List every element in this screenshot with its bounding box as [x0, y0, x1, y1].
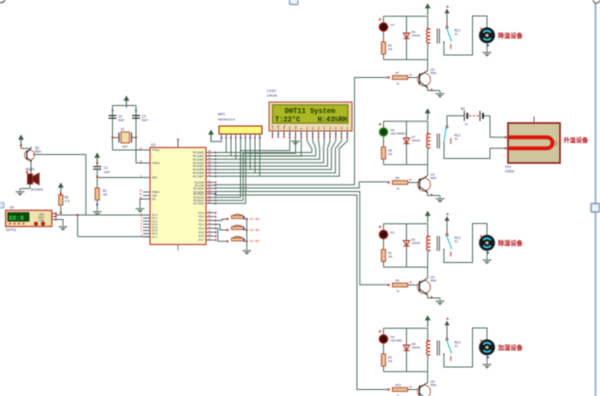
svg-text:X3: X3 [391, 23, 395, 27]
svg-text:D8: D8 [412, 342, 416, 346]
svg-text:VEE: VEE [284, 125, 286, 130]
svg-text:P0.7/AD7: P0.7/AD7 [193, 174, 205, 178]
svg-text:P0.5/AD5: P0.5/AD5 [193, 168, 205, 172]
svg-text:10k: 10k [388, 152, 393, 156]
svg-text:RL3: RL3 [455, 236, 461, 240]
svg-text:R10: R10 [396, 383, 402, 387]
svg-text:SET: SET [255, 218, 260, 221]
svg-text:T:22°C: T:22°C [275, 115, 300, 124]
svg-text:P3.4: P3.4 [199, 226, 205, 230]
svg-text:升温设备: 升温设备 [564, 137, 590, 145]
svg-text:D5: D5 [412, 30, 416, 34]
svg-text:P2.7/A15: P2.7/A15 [193, 202, 204, 206]
svg-text:1N4148: 1N4148 [412, 242, 421, 245]
svg-text:RL1: RL1 [455, 29, 461, 33]
svg-text:ALE: ALE [152, 194, 157, 198]
svg-text:DHT11: DHT11 [6, 228, 17, 232]
svg-text:加湿设备: 加湿设备 [497, 344, 524, 352]
svg-text:R1: R1 [388, 251, 392, 255]
svg-text:P2.4/A12: P2.4/A12 [193, 192, 204, 196]
svg-text:RST: RST [152, 176, 158, 180]
svg-text:XTAL1: XTAL1 [152, 148, 160, 152]
svg-text:RL2: RL2 [455, 134, 461, 138]
svg-text:LCD1: LCD1 [267, 89, 276, 93]
svg-text:D2: D2 [412, 238, 416, 242]
svg-text:8550: 8550 [35, 150, 42, 154]
svg-text:除湿设备: 除湿设备 [498, 240, 524, 248]
svg-text:Q2: Q2 [431, 68, 435, 72]
svg-text:GND: GND [39, 220, 44, 222]
svg-text:R8: R8 [388, 149, 392, 153]
svg-text:RL4: RL4 [455, 341, 461, 345]
svg-text:P3.3: P3.3 [199, 223, 205, 227]
svg-text:Q5: Q5 [431, 380, 435, 384]
svg-text:P0.4/AD4: P0.4/AD4 [193, 164, 205, 168]
svg-text:Q3: Q3 [431, 173, 435, 177]
svg-text:OV1: OV1 [505, 165, 512, 169]
svg-text:VDD: VDD [39, 214, 44, 216]
svg-text:D6: D6 [391, 128, 395, 132]
svg-text:EA: EA [152, 197, 156, 201]
svg-text:R9: R9 [396, 176, 400, 180]
svg-text:VSS: VSS [272, 125, 274, 130]
svg-text:P3.5: P3.5 [199, 230, 205, 234]
svg-text:SET: SET [255, 240, 260, 243]
svg-text:30pF: 30pF [142, 118, 149, 122]
svg-text:B1: B1 [461, 107, 465, 111]
svg-text:LM016L: LM016L [267, 94, 278, 98]
svg-text:R3: R3 [396, 279, 400, 283]
svg-text:8050: 8050 [431, 71, 437, 75]
svg-text:P3.2: P3.2 [199, 219, 205, 223]
svg-text:RESPACK-8: RESPACK-8 [218, 117, 235, 121]
svg-text:1k: 1k [397, 289, 400, 293]
svg-text:10k: 10k [388, 359, 393, 363]
svg-text:P0.2/AD2: P0.2/AD2 [193, 157, 205, 161]
svg-text:降温设备: 降温设备 [498, 32, 524, 40]
svg-text:88:8: 88:8 [9, 215, 25, 222]
svg-text:30pF: 30pF [118, 118, 125, 122]
svg-text:1A: 1A [465, 122, 468, 126]
svg-text:1N4148: 1N4148 [412, 35, 421, 38]
svg-text:U1: U1 [151, 143, 156, 147]
svg-text:1N4148: 1N4148 [412, 347, 421, 350]
svg-text:R5: R5 [388, 356, 392, 360]
svg-text:5V: 5V [455, 137, 458, 141]
svg-text:P0.1/AD1: P0.1/AD1 [193, 154, 205, 158]
svg-text:P3.7: P3.7 [199, 238, 205, 242]
svg-text:8050: 8050 [431, 383, 437, 387]
svg-text:1N4148: 1N4148 [412, 140, 421, 143]
svg-text:10k: 10k [388, 255, 393, 259]
svg-text:SET: SET [255, 229, 260, 232]
svg-text:K2: K2 [250, 228, 254, 232]
svg-text:10uF: 10uF [104, 170, 111, 174]
svg-text:RS: RS [290, 126, 292, 130]
svg-text:1k: 1k [397, 187, 400, 191]
svg-text:Q4: Q4 [431, 275, 435, 279]
svg-text:5V: 5V [455, 240, 458, 244]
svg-text:K1: K1 [250, 217, 254, 221]
svg-text:BUZ1: BUZ1 [26, 168, 35, 172]
svg-text:U2: U2 [10, 206, 14, 210]
svg-text:VDD: VDD [278, 124, 280, 129]
svg-text:10k: 10k [388, 47, 393, 51]
svg-text:LED-GREEN: LED-GREEN [391, 132, 406, 136]
svg-text:P3.0: P3.0 [199, 211, 205, 215]
svg-text:8050: 8050 [431, 176, 437, 180]
svg-text:P0.0/AD0: P0.0/AD0 [193, 151, 205, 155]
svg-text:BUZZER: BUZZER [31, 188, 44, 192]
svg-text:P1.7: P1.7 [152, 235, 158, 239]
svg-text:K3: K3 [250, 239, 254, 243]
svg-text:100: 100 [554, 140, 558, 146]
svg-text:10k: 10k [103, 193, 108, 197]
svg-text:XTAL2: XTAL2 [152, 161, 160, 165]
svg-text:H:43%RH: H:43%RH [318, 116, 347, 124]
svg-text:OVEN: OVEN [505, 169, 515, 173]
svg-text:P0.6/AD6: P0.6/AD6 [193, 171, 205, 175]
svg-text:D4: D4 [391, 335, 395, 339]
svg-text:4.7k: 4.7k [65, 199, 71, 203]
svg-text:1k: 1k [397, 82, 400, 86]
svg-text:D7: D7 [412, 135, 416, 139]
svg-text:DATA: DATA [38, 216, 44, 219]
svg-text:DHT11 System: DHT11 System [285, 108, 335, 116]
svg-text:8050: 8050 [431, 279, 437, 283]
svg-text:5V: 5V [455, 32, 458, 36]
svg-text:P3.6: P3.6 [199, 234, 205, 238]
svg-text:P3.1: P3.1 [199, 215, 205, 219]
svg-text:R2: R2 [388, 44, 392, 48]
svg-text:RP1: RP1 [218, 113, 225, 117]
svg-text:12M: 12M [122, 145, 128, 149]
svg-text:PSEN: PSEN [152, 190, 159, 194]
svg-text:5V: 5V [455, 344, 458, 348]
svg-text:D1: D1 [391, 231, 395, 235]
svg-text:P0.3/AD3: P0.3/AD3 [193, 161, 205, 165]
svg-text:R7: R7 [396, 71, 400, 75]
svg-text:LED-RED: LED-RED [391, 339, 403, 343]
svg-text:X1: X1 [121, 128, 125, 132]
